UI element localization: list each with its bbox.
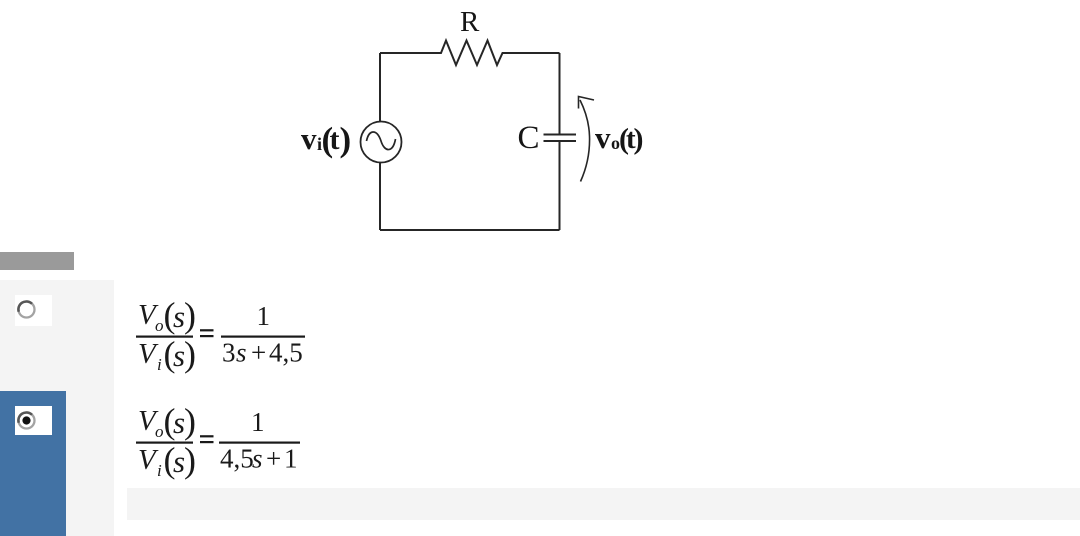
svg-text:s: s [236, 338, 247, 368]
svg-text:V: V [138, 338, 159, 370]
svg-text:1: 1 [257, 301, 271, 331]
svg-text:1: 1 [251, 407, 265, 437]
svg-text:): ) [340, 120, 352, 159]
svg-text:C: C [518, 120, 540, 156]
svg-text:): ) [184, 440, 196, 480]
svg-text:1: 1 [284, 444, 298, 474]
svg-text:o: o [155, 422, 164, 441]
svg-text:4,5: 4,5 [269, 338, 303, 368]
svg-text:v: v [595, 120, 611, 155]
svg-text:i: i [157, 461, 162, 480]
svg-text:+: + [266, 444, 281, 474]
svg-text:): ) [184, 401, 196, 441]
svg-text:v: v [301, 121, 317, 156]
svg-text:): ) [184, 334, 196, 374]
svg-text:R: R [460, 6, 480, 38]
svg-text:o: o [155, 316, 164, 335]
svg-text:s: s [252, 444, 263, 474]
svg-text:): ) [184, 295, 196, 335]
svg-text:3: 3 [222, 338, 236, 368]
svg-text:t: t [330, 123, 340, 156]
svg-text:): ) [634, 123, 644, 156]
svg-text:i: i [157, 355, 162, 374]
svg-text:V: V [138, 444, 159, 476]
svg-text:4,5: 4,5 [220, 444, 254, 474]
svg-text:+: + [251, 338, 266, 368]
